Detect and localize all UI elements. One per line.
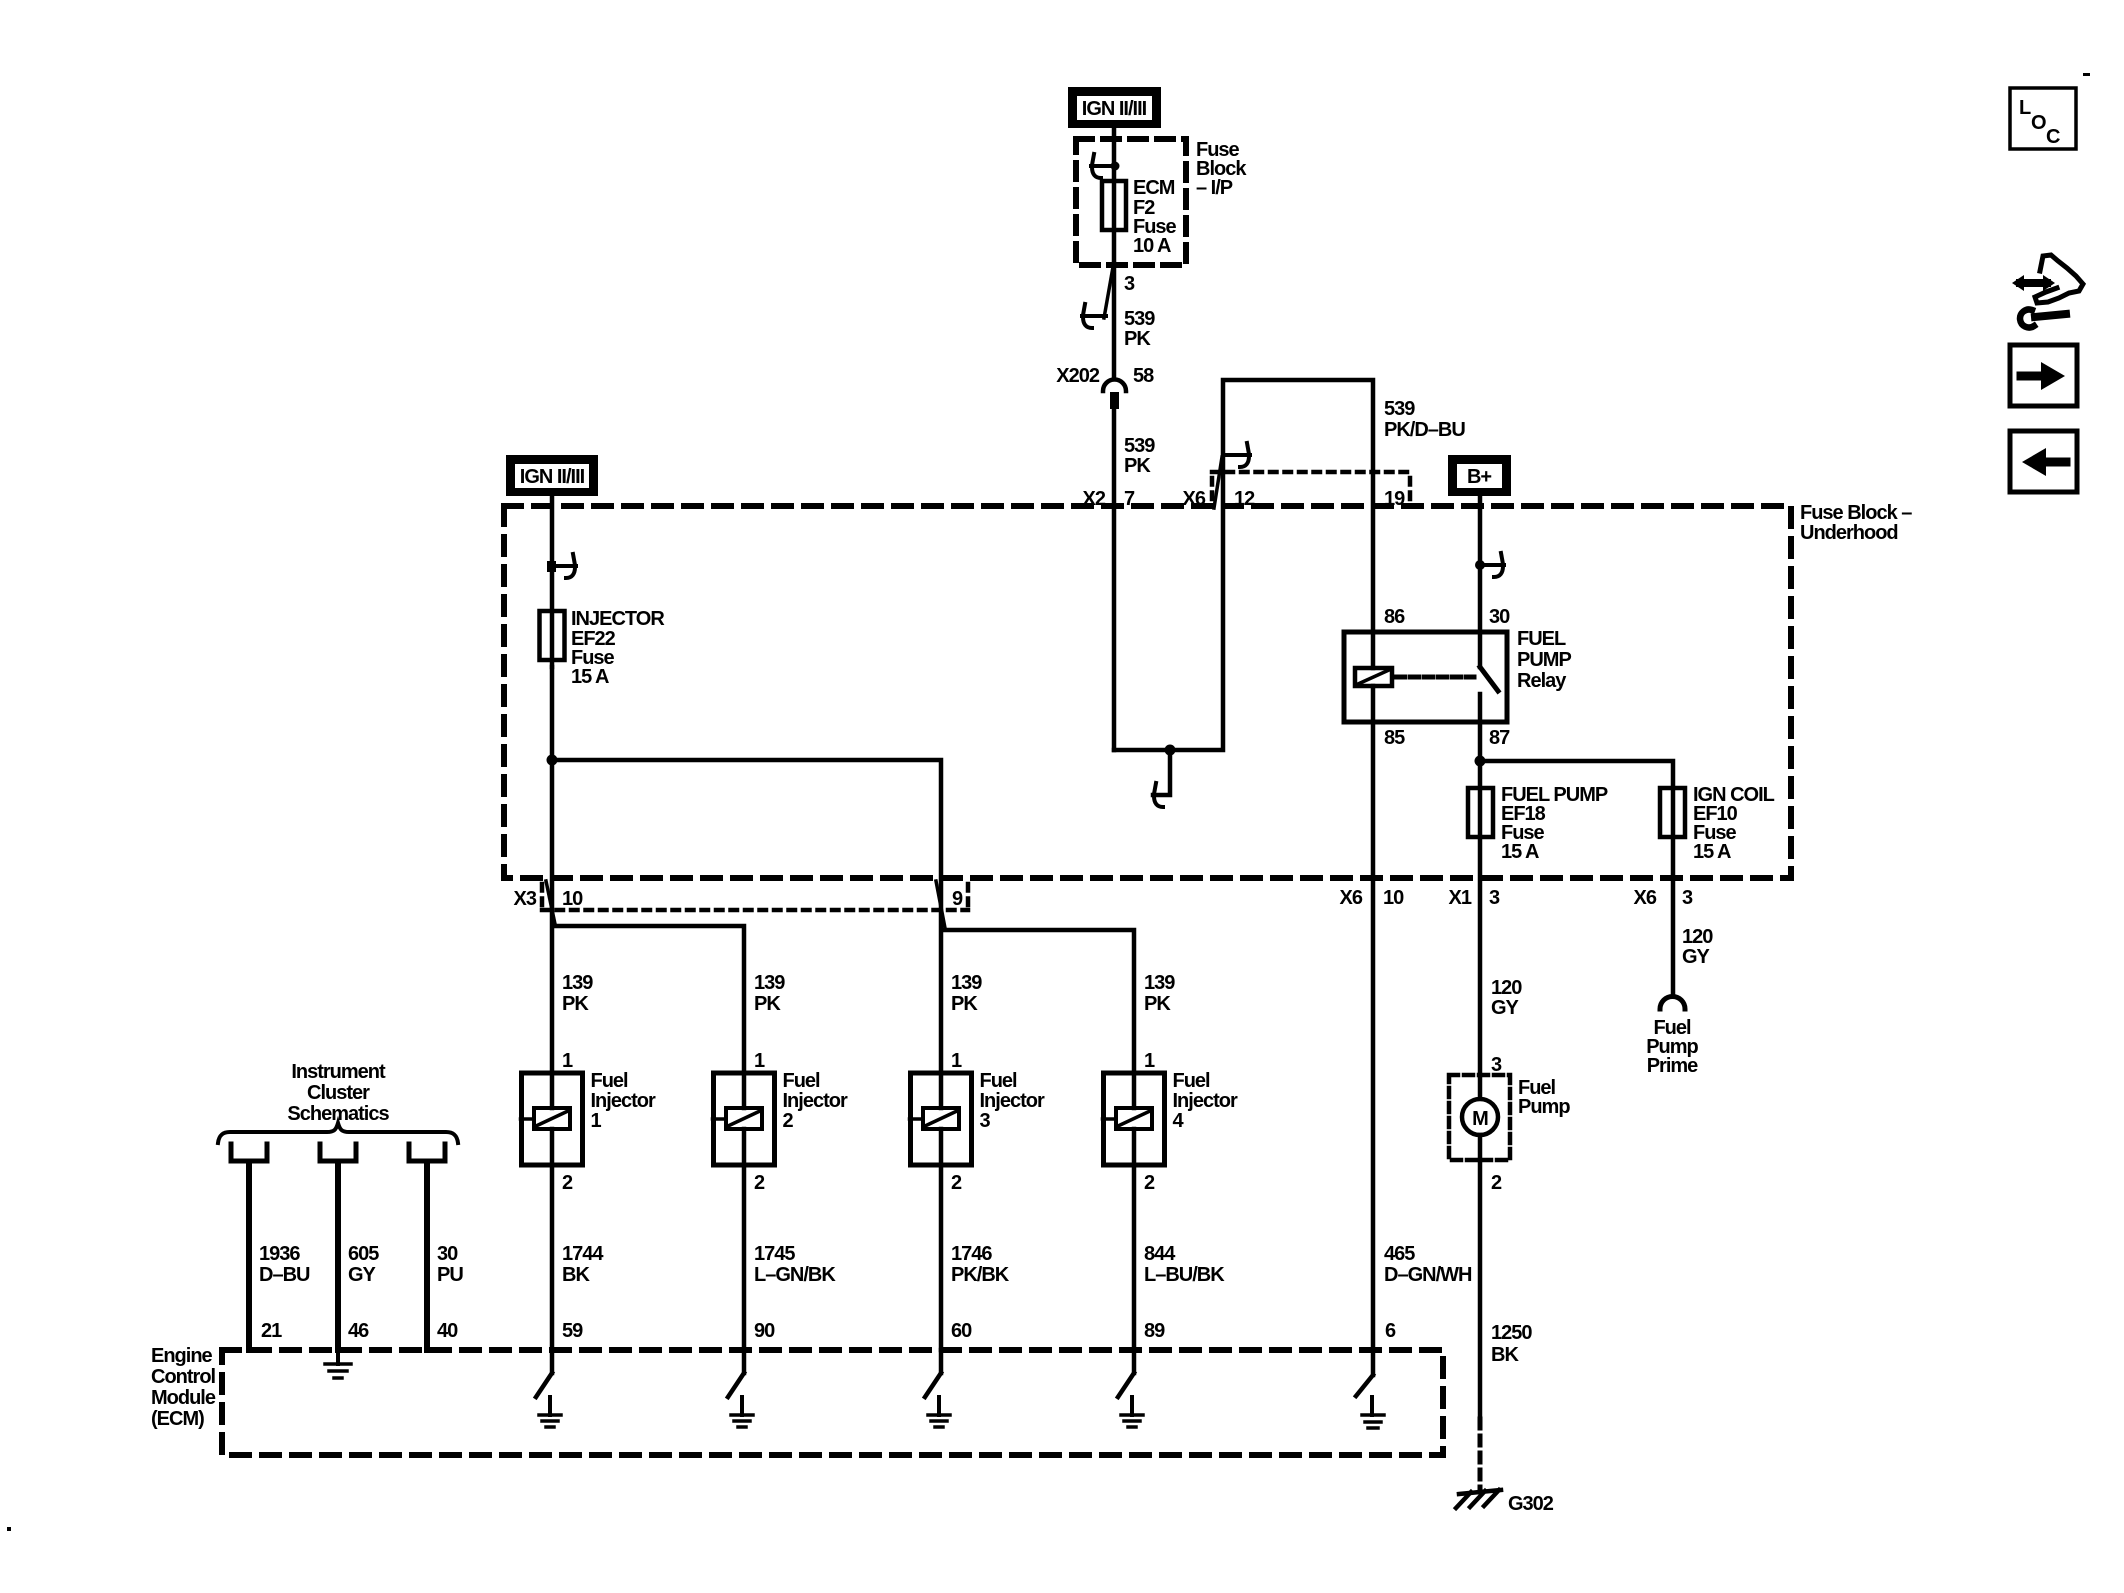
fuse F2 (ECM F2 Fuse 10 A) [1102,181,1126,230]
fuel pump motor [1478,1075,1483,1099]
tiny speck bottom left [7,1527,11,1531]
svg-text:2: 2 [1144,1172,1155,1194]
svg-text:Injector: Injector [783,1090,848,1112]
svg-text:BK: BK [1491,1344,1519,1366]
svg-text:INJECTOR: INJECTOR [571,608,665,630]
wire branch to injector 2 [554,926,744,1073]
connector leg slant at X3 pin 10 [546,881,555,924]
svg-text:2: 2 [562,1172,573,1194]
svg-text:139: 139 [1144,972,1175,994]
svg-text:L–GN/BK: L–GN/BK [754,1264,836,1286]
svg-text:Engine: Engine [151,1345,213,1367]
connector X2 pin 7 labels [1083,488,1135,510]
svg-text:1745: 1745 [754,1243,795,1265]
svg-text:10: 10 [562,888,583,910]
ground (ECM internal, injector 3) [937,1397,941,1415]
svg-text:1: 1 [1144,1050,1155,1072]
splice X202 [1103,380,1126,392]
fuse EF22 (INJECTOR) [540,611,565,660]
connector X3 row dotted strip [542,884,968,910]
wire 139 PK label (injector 3 feed) [951,972,982,1015]
dashed wire to G302 [1478,1419,1483,1492]
svg-text:139: 139 [951,972,982,994]
svg-text:IGN II/III: IGN II/III [1082,98,1147,120]
svg-text:D–BU: D–BU [259,1264,310,1286]
wire 539 PK/D-BU loop (X2-7 over to relay 86) [1114,380,1373,750]
terminal socket 3 [409,1144,445,1161]
in-line connector clip (at X6 pin 12) [1226,443,1250,467]
svg-text:L: L [2019,97,2031,119]
fuel pump relay box [1344,632,1507,722]
svg-text:58: 58 [1133,365,1154,387]
wire B+ down to relay pin 30 [1478,496,1483,632]
wire relay 87 down and branch [1478,722,1483,1075]
svg-text:Fuse Block –: Fuse Block – [1800,502,1912,524]
svg-text:X6: X6 [1183,488,1206,510]
svg-text:1: 1 [951,1050,962,1072]
terminal socket 1 [231,1144,267,1161]
wire 139 PK label (injector 1 feed) [562,972,593,1015]
junction dot at clip [1111,162,1120,171]
ground (ECM internal, injector 4) [1130,1397,1134,1415]
wire label 120 GY (prime side) [1682,926,1713,968]
ECM label [151,1345,216,1430]
wire 539 PK (lower) [1112,409,1117,750]
svg-text:3: 3 [1682,887,1693,909]
svg-text:120: 120 [1682,926,1713,948]
svg-text:GY: GY [1682,946,1711,968]
svg-text:Relay: Relay [1517,670,1567,692]
svg-text:Prime: Prime [1647,1055,1698,1077]
fuel pump dashed box [1449,1075,1510,1160]
svg-text:539: 539 [1124,308,1155,330]
connector X6 row (top) dotted strip [1212,472,1410,501]
junction node at 87 branch [1475,756,1486,767]
svg-text:PK: PK [1144,993,1171,1015]
in-line connector clip (on B+ wire) [1480,553,1504,577]
brace over cluster wires [218,1123,458,1143]
fuse block underhood dashed box [504,506,1791,878]
svg-text:ECM: ECM [1133,177,1175,199]
svg-text:Fuel: Fuel [783,1070,821,1092]
junction node on X2-7 run [1165,745,1176,756]
svg-text:90: 90 [754,1320,775,1342]
svg-text:1746: 1746 [951,1243,992,1265]
svg-text:Injector: Injector [980,1090,1045,1112]
svg-text:139: 139 [754,972,785,994]
fuel pump prime label [1646,1017,1698,1077]
svg-text:PK: PK [951,993,978,1015]
connector leg slant below F2 [1104,267,1113,318]
svg-text:3: 3 [1491,1054,1502,1076]
wire relay 85 to ECM pin 6 [1371,722,1376,1350]
fuse block underhood label [1800,502,1912,544]
svg-text:PK: PK [1124,455,1151,477]
svg-text:Fuel: Fuel [980,1070,1018,1092]
svg-text:PK: PK [754,993,781,1015]
svg-text:59: 59 [562,1320,583,1342]
connector labels under underhood box [1340,887,1693,909]
svg-text:BK: BK [562,1264,590,1286]
wire 539 PK (upper) [1112,264,1117,379]
ECM driver switch (relay control) [1371,1350,1376,1375]
wire label 539 PK/D-BU [1384,398,1465,441]
junction node after EF22 [547,755,558,766]
fuel injector 4 [1104,1073,1165,1165]
svg-text:120: 120 [1491,977,1522,999]
wire label 465 D-GN/WH [1384,1243,1472,1286]
wire 1936 D-BU [246,1163,252,1350]
svg-text:Fuel: Fuel [1173,1070,1211,1092]
instrument cluster schematics label [287,1061,389,1125]
fuel injector 3 [911,1073,972,1165]
svg-text:86: 86 [1384,606,1405,628]
svg-text:10: 10 [1383,887,1404,909]
wire injector 2 to ECM [742,1165,747,1350]
ECM driver switch (injector 1) [550,1350,555,1373]
svg-text:605: 605 [348,1243,379,1265]
svg-text:Instrument: Instrument [291,1061,386,1083]
svg-text:X1: X1 [1449,887,1472,909]
svg-text:Injector: Injector [591,1090,656,1112]
svg-text:D–GN/WH: D–GN/WH [1384,1264,1472,1286]
svg-text:PK/D–BU: PK/D–BU [1384,419,1465,441]
svg-text:Pump: Pump [1518,1096,1570,1118]
ground (ECM internal, injector 2) [740,1397,744,1415]
svg-text:6: 6 [1385,1320,1396,1342]
fuse EF18 (FUEL PUMP) [1468,788,1493,837]
relay pin labels [1384,606,1510,749]
legend box LOC [2010,88,2076,149]
wire 139 PK label (injector 2 feed) [754,972,785,1015]
terminal socket 2 [320,1144,356,1161]
svg-text:C: C [2046,126,2060,148]
svg-text:539: 539 [1384,398,1415,420]
svg-text:40: 40 [437,1320,458,1342]
tools icon (double arrow, outline, wrench) [2012,255,2083,327]
svg-text:21: 21 [261,1320,282,1342]
in-line connector clip (end of stub) [1154,783,1163,807]
svg-text:2: 2 [951,1172,962,1194]
svg-text:PUMP: PUMP [1517,649,1571,671]
svg-text:2: 2 [1491,1172,1502,1194]
svg-text:85: 85 [1384,727,1405,749]
wire 30 PU [424,1163,430,1350]
svg-text:465: 465 [1384,1243,1415,1265]
nav box arrow left [2010,431,2077,492]
stub wire to in-line connector below junction [1153,750,1170,795]
svg-text:B+: B+ [1467,466,1491,488]
fuel injector 2 [714,1073,775,1165]
svg-text:12: 12 [1234,488,1255,510]
wire label 120 GY (pump side) [1491,977,1522,1019]
in-line connector clip (on EF22 wire) [547,554,576,578]
wire branch to injector 4 [944,930,1134,1073]
svg-text:30: 30 [437,1243,458,1265]
svg-text:Cluster: Cluster [307,1082,370,1104]
wire 139 PK label (injector 4 feed) [1144,972,1175,1015]
wire through fuse F2 [1112,166,1117,264]
svg-text:3: 3 [1489,887,1500,909]
nav box arrow right [2010,345,2077,406]
svg-text:1: 1 [754,1050,765,1072]
wire EF22 down to injector 1 [550,667,555,1073]
svg-text:2: 2 [783,1110,794,1132]
svg-text:PK: PK [1124,328,1151,350]
in-line connector clip (below F2) [1082,304,1106,328]
svg-text:IGN II/III: IGN II/III [520,466,585,488]
svg-text:Injector: Injector [1173,1090,1238,1112]
svg-text:10 A: 10 A [1133,235,1171,257]
relay switch blade [1478,632,1483,667]
svg-text:Fuel: Fuel [591,1070,629,1092]
relay internal dashed link [1396,675,1474,680]
svg-text:GY: GY [1491,997,1520,1019]
svg-text:1: 1 [562,1050,573,1072]
fuel injector 1 [522,1073,583,1165]
connector X6 pin 12 / pin 19 labels [1183,488,1406,510]
svg-text:X202: X202 [1056,365,1100,387]
svg-text:3: 3 [1124,273,1135,295]
fuse EF10 (IGN COIL) [1660,788,1685,837]
svg-text:139: 139 [562,972,593,994]
svg-text:1936: 1936 [259,1243,300,1265]
wire 605 GY [335,1163,341,1350]
connector leg slant at X6 pin 12 [1214,457,1222,508]
power feed box B+ [1448,455,1511,496]
svg-text:15 A: 15 A [1501,841,1539,863]
engine control module dashed box [222,1350,1443,1455]
fuse block I/P label [1196,139,1247,199]
svg-text:L–BU/BK: L–BU/BK [1144,1264,1225,1286]
svg-text:1250: 1250 [1491,1322,1532,1344]
in-line connector clip (inside fuse block I/P) [1091,154,1115,178]
wire branch right to pin 9 [552,760,941,1073]
svg-text:– I/P: – I/P [1196,177,1233,199]
svg-text:46: 46 [348,1320,369,1342]
svg-text:X6: X6 [1340,887,1363,909]
relay label [1517,628,1571,692]
svg-text:844: 844 [1144,1243,1176,1265]
svg-text:60: 60 [951,1320,972,1342]
wire 1250 BK [1478,1160,1483,1419]
svg-text:30: 30 [1489,606,1510,628]
svg-text:PK/BK: PK/BK [951,1264,1010,1286]
svg-text:15 A: 15 A [571,666,609,688]
wire injector 3 to ECM [939,1165,944,1350]
tiny speck top right [2083,73,2090,76]
power feed box IGN II/III (left) [506,455,598,496]
wire from IGN II/III into fuse block I/P [1112,128,1117,166]
wire injector 1 to ECM [550,1165,555,1350]
wire IGN to fuse EF22 [550,496,555,667]
svg-text:(ECM): (ECM) [151,1408,204,1430]
ground G302 [1456,1490,1501,1508]
wire branch to IGN coil fuse [1480,761,1673,996]
svg-text:87: 87 [1489,727,1510,749]
svg-text:FUEL: FUEL [1517,628,1566,650]
svg-text:1744: 1744 [562,1243,604,1265]
svg-text:PU: PU [437,1264,463,1286]
svg-text:2: 2 [754,1172,765,1194]
connector X3 labels [514,888,963,910]
svg-text:O: O [2031,112,2046,134]
svg-text:15 A: 15 A [1693,841,1731,863]
relay coil [1371,632,1376,668]
svg-text:3: 3 [980,1110,991,1132]
svg-text:1: 1 [591,1110,602,1132]
fuse block I/P dashed box [1076,139,1186,265]
ECM driver switch (injector 3) [939,1350,944,1373]
svg-text:PK: PK [562,993,589,1015]
svg-text:G302: G302 [1508,1493,1554,1515]
svg-text:89: 89 [1144,1320,1165,1342]
svg-text:19: 19 [1384,488,1405,510]
power feed box IGN II/III (top) [1068,87,1161,128]
ECM driver switch (injector 2) [742,1350,747,1373]
ECM driver switch (injector 4) [1132,1350,1137,1373]
ground (ECM internal, under pin 46) [336,1350,340,1364]
svg-text:X6: X6 [1634,887,1657,909]
fuel pump prime connector arc [1660,997,1685,1010]
svg-text:9: 9 [952,888,963,910]
svg-text:Underhood: Underhood [1800,522,1898,544]
svg-text:Module: Module [151,1387,216,1409]
svg-text:539: 539 [1124,435,1155,457]
svg-text:X3: X3 [514,888,537,910]
ground (ECM internal, injector 1) [548,1397,552,1415]
svg-text:GY: GY [348,1264,377,1286]
wire injector 4 to ECM [1132,1165,1137,1350]
fuel pump label [1518,1077,1570,1118]
svg-text:M: M [1472,1108,1488,1130]
svg-text:Control: Control [151,1366,216,1388]
connector leg slant at pin 9 [936,881,945,928]
ground (ECM internal, relay control) [1370,1397,1374,1415]
